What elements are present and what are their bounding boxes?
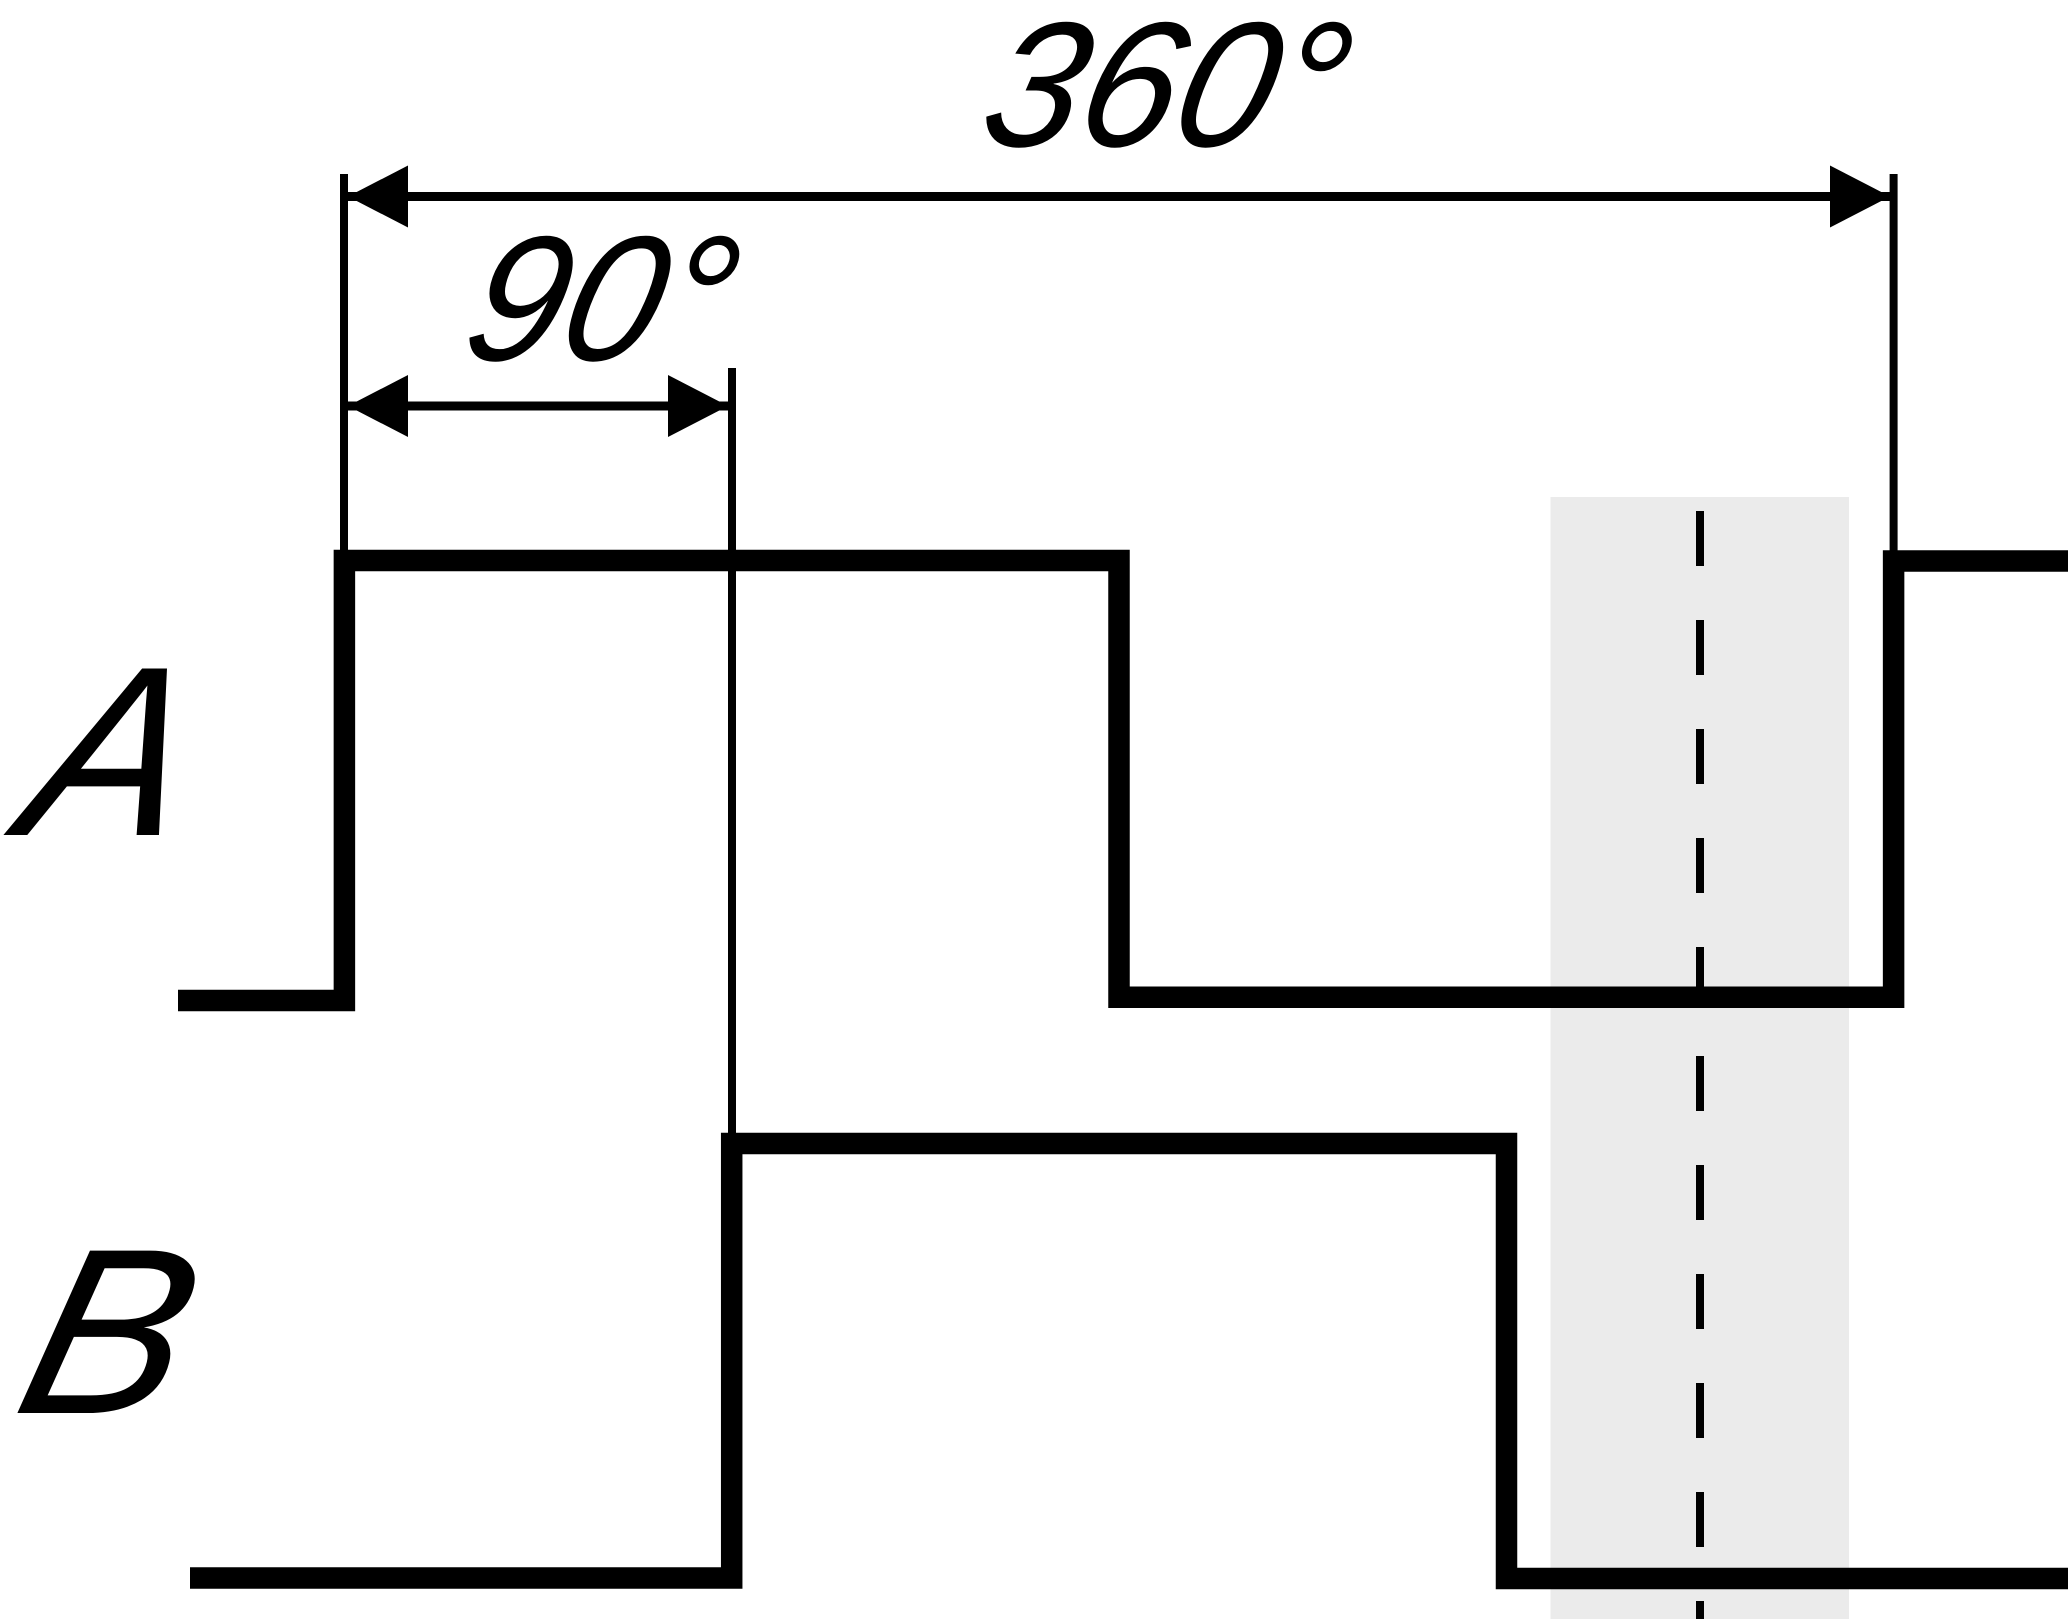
arrowhead 90 right [668,375,728,437]
dimension line 360 [348,192,1890,201]
arrowhead 360 right [1830,166,1890,228]
arrowhead 90 left [348,375,408,437]
extension line right (x=1893.6) [1890,174,1898,558]
signal B waveform [190,1144,2068,1579]
signal A waveform [178,561,2068,1001]
dimension line 90 [348,402,728,411]
gray highlight band [1551,497,1850,1619]
svg-text:360°: 360° [966,0,1371,184]
dashed center line [1696,511,1704,1619]
extension line middle (x=732) [728,368,736,1140]
extension line left (x=344) [340,174,348,556]
arrowhead 360 left [348,166,408,228]
svg-text:90°: 90° [449,199,758,398]
